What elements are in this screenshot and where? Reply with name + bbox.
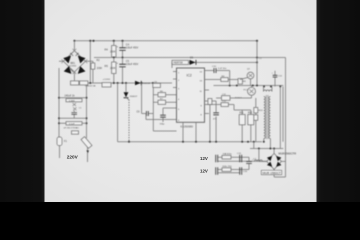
capacitor C11 box bbox=[222, 96, 231, 101]
svg-text:R5: R5 bbox=[105, 64, 109, 68]
bridge rectifier BR2 bbox=[267, 153, 282, 169]
capacitor C10 bbox=[205, 71, 230, 86]
wire filter right rail bbox=[86, 85, 88, 136]
wire pin5 lead bbox=[163, 107, 177, 109]
capacitor C4 bbox=[122, 41, 124, 58]
wire R5 leads bbox=[113, 58, 115, 84]
svg-text:100uF 450V: 100uF 450V bbox=[126, 64, 139, 66]
svg-text:10A 600v: 10A 600v bbox=[223, 153, 233, 156]
inductor L1 choke bbox=[73, 103, 77, 110]
svg-text:100p: 100p bbox=[160, 124, 166, 126]
IC right pin stubs bbox=[205, 90, 210, 114]
svg-text:0.47 50v: 0.47 50v bbox=[218, 68, 227, 70]
terminal row2 bbox=[215, 167, 218, 174]
wire vertical from rail to W3 bbox=[89, 41, 91, 83]
wire D5 branch bbox=[172, 62, 257, 68]
capacitor CX2 box bbox=[80, 81, 88, 85]
transistor Q1 circle bbox=[247, 72, 254, 79]
node dots rail2 bbox=[113, 57, 115, 59]
wire right drop from top rail bbox=[256, 41, 258, 86]
wire right rail2 drop bbox=[285, 58, 287, 178]
svg-text:+C3 R3: +C3 R3 bbox=[103, 79, 111, 81]
switch SW1 diagonal bbox=[81, 136, 92, 163]
wire vertical rail C bbox=[153, 86, 176, 131]
svg-text:1N4148: 1N4148 bbox=[143, 83, 151, 85]
svg-text:12V: 12V bbox=[200, 156, 208, 161]
capacitor C5 bbox=[122, 58, 124, 84]
wire bridge2 top lead bbox=[273, 149, 275, 154]
svg-text:MUR1560CTR: MUR1560CTR bbox=[279, 151, 297, 155]
wire row2 bbox=[218, 170, 247, 173]
fuse F2 box row1 bbox=[222, 155, 231, 159]
svg-text:0.1uF: 0.1uF bbox=[69, 123, 75, 125]
svg-text:4x1N54: 4x1N54 bbox=[69, 65, 77, 67]
wire bridge2 left loop bbox=[259, 149, 267, 162]
resistor R8 bbox=[205, 79, 241, 81]
svg-text:200K: 200K bbox=[110, 51, 116, 54]
IC left pin stubs bbox=[173, 72, 177, 88]
winding primary column bbox=[126, 97, 129, 100]
wire rail2 bbox=[94, 57, 286, 59]
resistor R13 boxes right bbox=[255, 98, 257, 142]
diode D3 bbox=[125, 83, 127, 92]
svg-text:220V: 220V bbox=[67, 155, 79, 160]
wire right verticals to bridge bbox=[280, 87, 283, 149]
resistor R2 bbox=[85, 61, 93, 83]
node dots top rail bbox=[89, 40, 91, 42]
diode D5 bbox=[190, 60, 196, 65]
diode D2 bbox=[135, 81, 141, 85]
svg-text:200K: 200K bbox=[110, 67, 116, 70]
bridge rectifier BR1 bbox=[62, 49, 88, 77]
right pillar bar bbox=[317, 0, 360, 202]
varistor RV1 small bbox=[72, 131, 79, 134]
svg-text:KA3S0680: KA3S0680 bbox=[181, 124, 194, 128]
svg-text:MUR 1560CT: MUR 1560CT bbox=[263, 171, 282, 175]
left pillar bar bbox=[0, 0, 45, 202]
svg-text:100uF 450V: 100uF 450V bbox=[126, 47, 139, 49]
svg-text:IC2: IC2 bbox=[187, 74, 192, 78]
capacitor C16 row2 bbox=[239, 167, 242, 174]
wire bottom rail primary bbox=[118, 141, 262, 143]
wire secondary rail bbox=[250, 142, 283, 149]
IC U1 box bbox=[177, 68, 205, 122]
capacitor CX1 box bbox=[71, 81, 79, 85]
label box MUR 1560CT bbox=[261, 170, 281, 174]
resistor R3 bbox=[102, 83, 111, 87]
wire to bridge2 left bbox=[262, 160, 266, 162]
svg-text:600v 250: 600v 250 bbox=[223, 166, 233, 168]
resistor R7 bbox=[158, 100, 166, 104]
fuse F3 box row2 bbox=[222, 168, 231, 172]
resistor R4 bbox=[112, 46, 116, 58]
wire filter left rail bbox=[58, 68, 60, 137]
capacitor C6 box bbox=[153, 83, 161, 87]
capacitor C15 row1 bbox=[239, 155, 242, 162]
svg-text:12V: 12V bbox=[200, 168, 208, 173]
wire filter mid bbox=[59, 117, 87, 119]
capacitor CX3 box bbox=[66, 99, 82, 102]
inductor L2 bbox=[255, 160, 263, 161]
capacitor C14 bbox=[274, 71, 276, 87]
svg-text:1N4007: 1N4007 bbox=[130, 96, 138, 98]
wire filter top bbox=[59, 97, 87, 99]
capacitor X2 box bbox=[59, 122, 87, 124]
resistor R11 bbox=[239, 115, 245, 125]
capacitor C7 bbox=[162, 108, 164, 122]
svg-text:HER708: HER708 bbox=[174, 62, 184, 65]
transformer T1 bbox=[264, 87, 272, 149]
resistor R5 bbox=[112, 62, 116, 74]
svg-text:R4: R4 bbox=[105, 48, 109, 52]
wire vertical x210 bbox=[205, 101, 217, 142]
box HER708 bbox=[172, 60, 189, 64]
wire IC bottom leads bbox=[183, 122, 196, 142]
wire left vertical rail A bbox=[117, 83, 119, 142]
svg-text:240uF 1h: 240uF 1h bbox=[65, 94, 76, 97]
resistor R10 bbox=[208, 99, 212, 105]
wire R4 leads bbox=[113, 41, 115, 58]
wire bridge2 bottom loop bbox=[274, 161, 285, 177]
wire mid rail y83.5 bbox=[71, 82, 173, 84]
wire bridge top lead bbox=[73, 41, 75, 51]
wire fuse lead bbox=[59, 146, 61, 158]
capacitor C13 bbox=[215, 101, 217, 142]
wire top rail bbox=[74, 40, 257, 42]
svg-text:200K: 200K bbox=[97, 68, 103, 70]
svg-text:0.068: 0.068 bbox=[69, 100, 75, 102]
wire node rail y85.5 bbox=[214, 85, 284, 87]
wire pin6 lead bbox=[146, 114, 177, 120]
wire row1 bbox=[218, 157, 267, 161]
capacitor C17 mid bbox=[247, 157, 250, 169]
optocoupler PC1 circle bbox=[248, 87, 256, 95]
node dots mid rail bbox=[89, 82, 91, 84]
svg-text:uF 250 275VAC: uF 250 275VAC bbox=[64, 127, 80, 130]
wire vertical rail B bbox=[141, 83, 143, 114]
capacitor C9 bbox=[142, 113, 154, 115]
terminal row1 bbox=[215, 155, 218, 162]
resistor R10 bbox=[205, 105, 235, 111]
wire node line y110 bbox=[234, 109, 251, 111]
resistor R6 bbox=[158, 93, 166, 97]
fuse F1 bbox=[57, 137, 62, 146]
resistor R9 bbox=[238, 79, 242, 85]
wire bridge left vertex bbox=[59, 61, 74, 80]
schematic paper bbox=[44, 0, 317, 202]
resistor R12 bbox=[248, 115, 254, 125]
